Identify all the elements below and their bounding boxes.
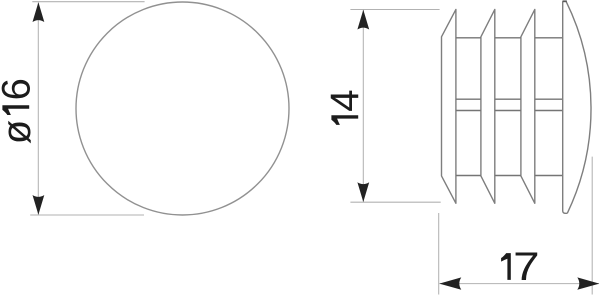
svg-text:ø: ø <box>0 120 39 144</box>
svg-text:7: 7 <box>513 245 540 289</box>
svg-text:6: 6 <box>0 78 38 100</box>
svg-text:4: 4 <box>323 90 367 112</box>
